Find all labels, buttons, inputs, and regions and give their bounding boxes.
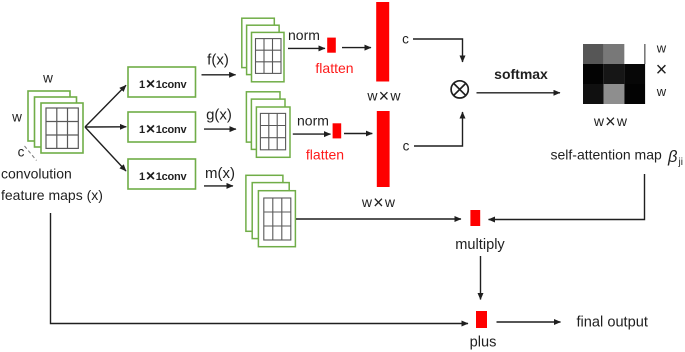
grid of feature map x — [46, 108, 78, 148]
g(x) feature stack — [246, 92, 290, 158]
svg-text:w: w — [42, 71, 53, 86]
svg-text:c: c — [18, 145, 25, 160]
svg-text:norm: norm — [288, 27, 320, 43]
svg-text:final output: final output — [577, 315, 648, 331]
svg-text:feature maps (x): feature maps (x) — [1, 187, 103, 203]
svg-text:c: c — [402, 31, 409, 46]
wire f stack to flatten vector — [288, 47, 325, 49]
wire c1 elbow into otimes — [413, 39, 463, 62]
m(x) feature stack — [246, 175, 296, 246]
svg-text:flatten: flatten — [315, 60, 353, 76]
self-attention map (3x3 grayscale) — [583, 44, 645, 104]
wire flatten f to bar1 — [342, 47, 371, 49]
svg-text:norm: norm — [297, 113, 329, 129]
svg-text:×: × — [656, 59, 668, 81]
red bar1 (f flattened, w x w x c) — [376, 2, 389, 82]
wire x skip connection to plus — [51, 213, 469, 324]
right border tick of map — [644, 44, 646, 64]
flatten vector f (small red) — [327, 38, 336, 53]
svg-text:w×w: w×w — [593, 111, 628, 131]
1x1 conv box g — [128, 112, 196, 142]
svg-text:1×1conv: 1×1conv — [139, 76, 187, 93]
fan wire: x to conv g — [85, 126, 126, 128]
svg-text:plus: plus — [470, 335, 497, 351]
grid of f stack — [256, 39, 282, 74]
svg-text:multiply: multiply — [455, 237, 505, 253]
svg-text:convolution: convolution — [1, 166, 72, 182]
svg-text:flatten: flatten — [306, 147, 344, 163]
red bar2 (g flattened) — [377, 111, 390, 187]
svg-text:c: c — [403, 138, 410, 153]
wire otimes to attention map — [477, 92, 561, 94]
fan wire: x to conv f — [85, 85, 126, 127]
wire multiply down to plus — [480, 256, 482, 300]
flatten vector g (small red) — [333, 123, 342, 138]
svg-text:w: w — [11, 110, 22, 125]
dashed depth line near c — [25, 146, 37, 161]
f(x) feature stack — [242, 18, 284, 82]
wire attention map down-left into multiply — [489, 174, 645, 220]
grid of m stack — [264, 198, 291, 240]
wire flatten g to bar2 — [344, 133, 372, 135]
wire m stack to multiply — [296, 218, 461, 220]
svg-text:w×w: w×w — [361, 192, 396, 212]
wire c2 elbow into otimes — [414, 112, 463, 146]
svg-text:1×1conv: 1×1conv — [139, 168, 187, 185]
grid of g stack — [260, 113, 285, 149]
svg-text:1×1conv: 1×1conv — [139, 121, 187, 138]
convolution feature maps stack (x) — [28, 91, 83, 153]
1x1 conv box m — [128, 159, 196, 189]
wire conv to m stack — [204, 185, 233, 187]
otimes matrix-multiply symbol — [451, 81, 468, 98]
fan wire: x to conv m — [85, 127, 126, 171]
wire conv to g stack — [204, 128, 236, 130]
svg-text:ji: ji — [678, 157, 683, 168]
plus node (small red) — [476, 311, 487, 328]
wire g stack to flatten vector — [293, 133, 331, 135]
svg-text:w×w: w×w — [366, 86, 401, 106]
svg-text:m(x): m(x) — [205, 165, 235, 182]
svg-text:β: β — [667, 148, 678, 166]
svg-text:softmax: softmax — [494, 66, 548, 82]
svg-text:f(x): f(x) — [207, 52, 229, 69]
1x1 conv box f — [128, 67, 196, 97]
svg-text:w: w — [656, 84, 667, 99]
svg-text:w: w — [656, 41, 667, 56]
svg-text:self-attention map: self-attention map — [551, 147, 662, 163]
wire plus to final output — [497, 321, 561, 323]
multiply node (small red) — [470, 210, 480, 226]
svg-text:g(x): g(x) — [206, 107, 232, 124]
wire conv to f stack — [202, 74, 236, 76]
